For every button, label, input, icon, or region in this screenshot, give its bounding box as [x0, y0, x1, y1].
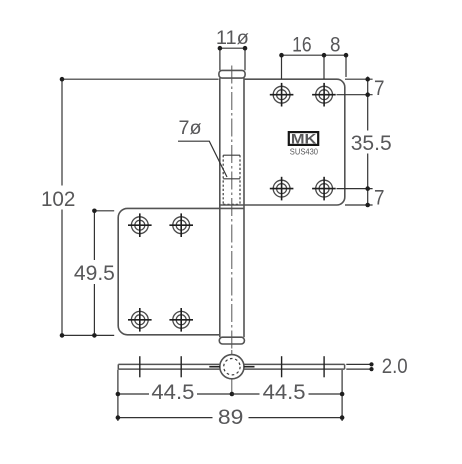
dim 44.5 left terminator dot [116, 392, 121, 397]
dim 44.5 left dimension line segment a [118, 393, 149, 395]
dim 102 bottom extension line [62, 334, 114, 336]
dim 49.5 dimension line lower segment [93, 284, 95, 335]
dim 89 left terminator dot [116, 415, 121, 420]
bottom view plate bar left end cap [117, 364, 119, 369]
dim 11ø right terminator dot [243, 46, 248, 51]
dim 8 right terminator dot [344, 53, 349, 58]
barrel top cap [219, 70, 245, 78]
svg-text:11ø: 11ø [216, 28, 249, 49]
dim 16/8 middle terminator dot [322, 53, 327, 58]
dim 2.0 upper terminator dot [369, 362, 373, 366]
barrel body right edge [243, 78, 245, 337]
svg-text:SUS430: SUS430 [290, 147, 319, 156]
dim 16 left terminator dot [279, 53, 284, 58]
dim 89 dimension line left segment [118, 417, 213, 419]
bottom dims right extension line [341, 370, 343, 421]
right dims dot at top hole row [365, 92, 370, 97]
dim 2.0 lower leader line [346, 368, 371, 370]
svg-text:7: 7 [374, 76, 385, 100]
hidden pin hole bottom edge (dashed) [223, 203, 240, 205]
dim 89 right terminator dot [340, 415, 345, 420]
dim 102 dimension line upper segment [61, 79, 63, 185]
svg-text:44.5: 44.5 [151, 380, 194, 404]
dim 8 right extension line (plate edge) [345, 55, 347, 77]
hidden pin hole right edge (dashed) [239, 155, 241, 204]
bottom view plate bar top edge [118, 363, 344, 365]
dim 11ø dimension line [219, 47, 245, 49]
hidden pin hole left edge (dashed) [222, 155, 224, 204]
right dims dimension line upper segment [367, 77, 369, 131]
svg-text:7ø: 7ø [179, 118, 202, 139]
dim 49.5 top extension line [94, 210, 114, 212]
hole right plate bottom-right [316, 180, 333, 197]
bottom view: circle horizontal centerline left [209, 366, 220, 368]
right dims dimension line lower segment [367, 154, 369, 207]
bottom view: barrel circle [220, 355, 244, 379]
dim 11ø left extension line [219, 48, 221, 70]
bottom view hole axis tick 4 [323, 356, 325, 377]
leader line for pin hole 7ø [178, 141, 227, 177]
hole right plate bottom-left [273, 180, 290, 197]
dim 44.5 right terminator dot [340, 392, 345, 397]
hole left plate top-left [131, 217, 148, 234]
dim 49.5 dimension line upper segment [93, 211, 95, 260]
dim 44.5 right dimension line segment b [309, 393, 343, 395]
right dims extension line at plate bottom [345, 204, 373, 206]
dim 11ø left terminator dot [218, 46, 223, 51]
screw holes [128, 83, 336, 332]
dim 16/8 dimension line [282, 54, 347, 56]
pin end joint line [223, 178, 240, 180]
hole left plate bottom-right [173, 311, 190, 328]
svg-text:8: 8 [330, 32, 341, 56]
dim 2.0 upper leader line [346, 363, 371, 365]
hole right plate top-left [273, 86, 290, 103]
MK maker logo [289, 130, 318, 146]
right dims dot at bottom hole row [365, 186, 370, 191]
barrel body left edge [219, 78, 221, 337]
dim 16/8 middle extension line (hole column 2) [323, 55, 325, 79]
svg-text:102: 102 [41, 187, 76, 211]
right dims dot at plate top [365, 77, 370, 82]
bottom view hole axis tick 1 [139, 356, 141, 377]
bottom view: circle horizontal centerline right [244, 366, 255, 368]
dim 44.5 center terminator dot [230, 392, 235, 397]
barrel centerline [231, 66, 233, 351]
hole left plate bottom-left [131, 311, 148, 328]
svg-text:89: 89 [218, 405, 244, 429]
dim 2.0 lower terminator dot [369, 367, 373, 371]
bottom view plate bar right end cap [344, 364, 346, 369]
dim 11ø right extension line [244, 48, 246, 70]
right dims extension line at bottom hole row [337, 188, 373, 190]
svg-text:MK: MK [291, 130, 317, 146]
bottom view hole axis tick 3 [281, 356, 283, 377]
hidden pin hole top edge [223, 154, 240, 156]
dim 102 dimension line lower segment [61, 210, 63, 336]
bottom dims left extension line [117, 370, 119, 422]
bottom view: hidden pin circle [224, 359, 240, 375]
hole right plate top-right [316, 86, 333, 103]
right dims extension line at plate top [345, 78, 373, 80]
dim 102 top extension line [62, 78, 219, 80]
svg-text:7: 7 [374, 185, 385, 209]
right dims extension line at top hole row [337, 94, 373, 96]
dim 44.5 right dimension line segment a [232, 393, 260, 395]
right flag plate [220, 79, 345, 205]
dim 89 dimension line right segment [249, 417, 343, 419]
centerline through bottom-view circle [231, 350, 233, 394]
bottom view hole axis tick 2 [180, 356, 182, 377]
right dims dot at plate bottom [365, 203, 370, 208]
svg-text:35.5: 35.5 [351, 131, 392, 155]
dim 102 bottom terminator dot [60, 333, 65, 338]
hinge barrel (pin sleeve, front view) [219, 70, 245, 344]
hole left plate top-right [173, 217, 190, 234]
dim 49.5 top terminator dot [92, 209, 97, 214]
barrel bottom cap [219, 337, 244, 344]
dim 16 left extension line (hole column 1) [281, 55, 283, 79]
svg-text:49.5: 49.5 [74, 261, 115, 285]
dim 44.5 left dimension line segment b [197, 393, 232, 395]
dim 102 top terminator dot [60, 77, 65, 82]
bottom view plate bar bottom edge [118, 368, 344, 370]
svg-text:16: 16 [292, 32, 312, 56]
left flag plate [118, 208, 244, 334]
svg-text:44.5: 44.5 [263, 380, 306, 404]
svg-text:2.0: 2.0 [382, 354, 408, 378]
dim 49.5 bottom terminator dot [92, 333, 97, 338]
